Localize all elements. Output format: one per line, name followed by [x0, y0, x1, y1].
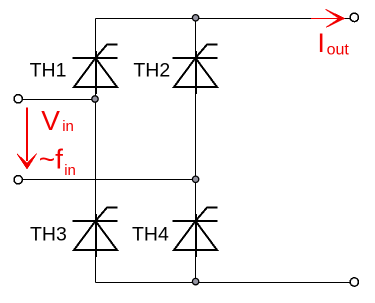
svg-text:~f: ~f: [39, 144, 63, 175]
svg-text:in: in: [64, 162, 76, 179]
svg-text:TH4: TH4: [132, 224, 169, 246]
svg-text:out: out: [327, 42, 350, 59]
svg-text:TH1: TH1: [30, 59, 67, 81]
svg-text:TH2: TH2: [133, 59, 170, 81]
svg-text:I: I: [317, 27, 325, 58]
svg-text:V: V: [41, 105, 60, 136]
svg-text:TH3: TH3: [30, 223, 67, 245]
svg-text:in: in: [62, 118, 74, 135]
